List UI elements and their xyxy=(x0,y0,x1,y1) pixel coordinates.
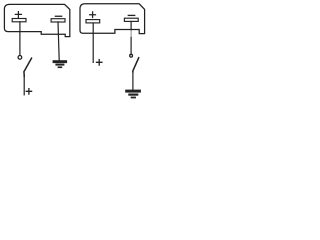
battery B2 case (right cell outline) xyxy=(80,4,145,34)
battery B1 positive plate xyxy=(12,19,26,22)
plus terminal label (left circuit) xyxy=(26,89,31,95)
battery B1 plus polarity mark xyxy=(15,12,21,18)
battery B1 negative plate xyxy=(51,19,65,22)
plus terminal label (right circuit) xyxy=(97,60,102,66)
switch S1 contact circle xyxy=(18,56,22,60)
switch S2 contact circle xyxy=(130,54,133,57)
battery B2 negative plate xyxy=(124,18,138,21)
ground symbol (right circuit) xyxy=(125,90,141,99)
wire from B1 positive plate down to switch S1 xyxy=(19,22,21,56)
battery B2 positive plate xyxy=(86,20,100,23)
battery B1 minus polarity mark xyxy=(55,15,61,17)
battery B1 case (left cell outline) xyxy=(4,4,69,36)
ground symbol (left circuit) xyxy=(53,60,68,68)
wire from switch S2 down to ground xyxy=(132,71,134,89)
battery B2 plus polarity mark xyxy=(90,12,96,18)
battery B2 minus polarity mark xyxy=(128,14,134,16)
wire from switch S1 down to terminal xyxy=(23,76,25,95)
switch S1 open blade xyxy=(24,58,32,76)
wire from B2 positive plate down to terminal xyxy=(92,23,94,62)
wire from B1 negative plate down to ground xyxy=(58,22,59,61)
switch S2 open blade xyxy=(133,58,139,72)
wire from B2 negative plate down to switch S2 xyxy=(130,21,132,30)
